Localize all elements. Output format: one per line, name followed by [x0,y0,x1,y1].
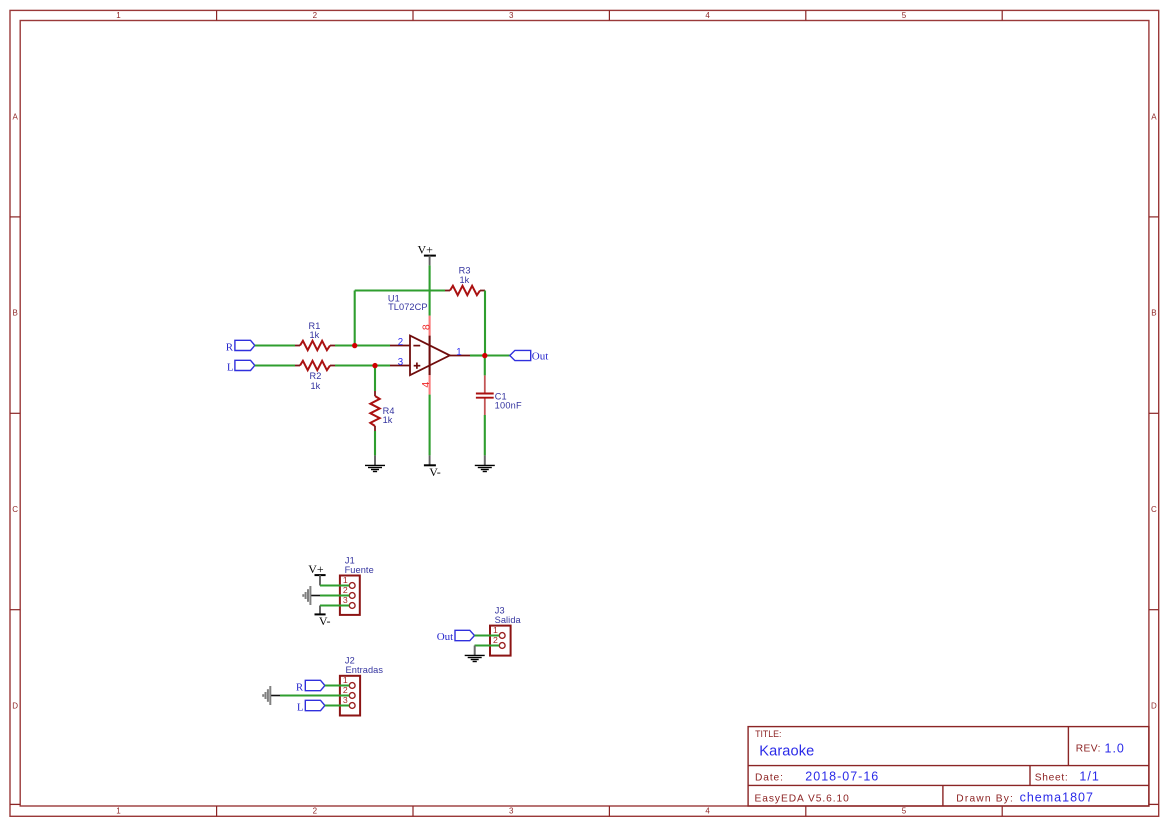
frame bottom margin ticks [10,803,20,805]
frame row ticks left [10,217,20,610]
wire L to R2 [255,364,295,366]
svg-text:1: 1 [116,11,121,20]
wire pin1 to node [470,354,485,356]
svg-text:3: 3 [509,807,514,816]
svg-text:Entradas: Entradas [346,665,384,675]
ground below C1 [475,455,495,471]
svg-text:2018-07-16: 2018-07-16 [805,769,879,783]
svg-text:1: 1 [343,675,348,685]
port L [227,360,255,373]
wire junction down to R4 [374,366,376,392]
svg-text:Out: Out [532,351,549,363]
svg-text:L: L [297,701,304,713]
op-amp pin 1 output [450,355,470,357]
svg-text:TITLE:: TITLE: [755,729,781,739]
connector J3 [490,606,522,656]
resistor R1 [295,321,335,350]
frame column numbers top [116,11,907,20]
wire node down to C1 [484,356,486,376]
power V+ (main) [418,243,436,266]
resistor R3 [445,266,485,296]
wire R2 to pin3 [335,364,390,366]
connector J2 [340,656,383,716]
port L (J2) [297,700,325,713]
frame column ticks top [217,10,1003,20]
wire junction up [354,291,356,346]
wire R1 to pin2 [335,344,390,346]
svg-text:100nF: 100nF [495,400,522,410]
op-amp U1 [388,293,450,375]
op-amp pin 2 [390,345,410,347]
ground below R4 [365,455,385,471]
wire V- to J1 pin3 [320,604,349,606]
svg-text:R: R [226,341,234,353]
svg-text:4: 4 [705,807,710,816]
wire GND stub to J1 pin2 [311,595,320,597]
svg-text:B: B [13,309,18,318]
wire R to R1 [255,344,295,346]
frame row letters left [12,112,18,710]
wire R3 down to output node [484,291,486,356]
svg-text:B: B [1151,309,1156,318]
svg-text:4: 4 [421,382,432,388]
svg-text:3: 3 [343,695,348,705]
svg-text:2: 2 [313,807,318,816]
frame row ticks right [1149,217,1159,610]
wire V+ to pin8 [429,265,431,315]
node junction R2/R4 [372,363,377,368]
svg-text:C: C [12,505,18,514]
svg-text:1: 1 [343,575,348,585]
resistor R4 [370,391,394,431]
ground GND (J1 pin2, rotated gray) [303,586,310,605]
wire feedback horizontal [355,289,445,291]
svg-text:TL072CP: TL072CP [388,302,428,312]
connector J1 [340,556,374,615]
svg-text:chema1807: chema1807 [1020,791,1094,805]
op-amp U1 pin 4 [429,375,431,394]
wire GND stub to J2 pin2 [271,695,280,697]
svg-text:L: L [227,361,234,373]
svg-text:A: A [1151,112,1157,121]
frame row letters right [1151,112,1157,710]
wire pin4 to V- [429,395,431,456]
svg-text:C: C [1151,505,1157,514]
frame column numbers bottom [116,807,907,816]
svg-text:3: 3 [343,595,348,605]
power V- (J1) [315,606,331,629]
svg-text:Drawn By:: Drawn By: [956,793,1014,804]
port R (J2) [296,680,325,693]
svg-text:D: D [12,701,18,710]
svg-text:5: 5 [902,11,907,20]
port Out (J3) [437,630,475,643]
wire node to Out port [485,354,510,356]
svg-text:3: 3 [509,11,514,20]
op-amp U1 pin 8 [429,316,431,336]
svg-text:2: 2 [493,635,498,645]
wire V+ to J1 pin1 [320,584,349,586]
svg-text:2: 2 [343,685,348,695]
power V+ (J1) [308,562,325,586]
svg-text:V+: V+ [308,562,324,576]
frame column ticks bottom [217,806,1003,816]
svg-text:1k: 1k [383,415,393,425]
port R [226,340,255,353]
svg-text:Out: Out [437,631,454,643]
svg-text:REV:: REV: [1076,744,1101,755]
svg-text:1k: 1k [310,381,320,391]
op-amp U1 pin8/pin4 inner stubs [429,336,431,376]
node junction output [482,353,487,358]
svg-text:1.0: 1.0 [1105,742,1125,756]
svg-text:R: R [296,681,304,693]
svg-text:V+: V+ [418,243,434,257]
svg-text:Fuente: Fuente [345,565,374,575]
svg-text:Karaoke: Karaoke [759,744,814,760]
svg-text:8: 8 [422,324,433,330]
svg-text:Salida: Salida [495,615,522,625]
wire Out to J3 pin1 [475,634,500,636]
svg-text:Date:: Date: [755,773,784,784]
port Out (main) [510,350,548,362]
wire C1 to ground [484,415,486,455]
power V- (main) [424,455,441,478]
ground (J3) [465,646,485,662]
svg-text:1/1: 1/1 [1079,769,1099,783]
wire L to J2 pin3 [325,704,350,706]
svg-text:1: 1 [456,347,461,358]
svg-text:EasyEDA V5.6.10: EasyEDA V5.6.10 [755,793,850,804]
svg-text:1: 1 [116,807,121,816]
wire R4 to ground [374,431,376,455]
svg-text:2: 2 [313,11,318,20]
op-amp pin 3 [390,365,410,367]
svg-text:V-: V- [429,465,441,479]
svg-text:R2: R2 [310,371,322,381]
svg-text:5: 5 [902,807,907,816]
node junction R1/feedback [352,343,357,348]
svg-text:1: 1 [493,625,498,635]
svg-text:J3: J3 [495,606,505,616]
capacitor C1 [476,375,522,415]
ground GND (J2 pin2, rotated gray) [263,686,270,705]
svg-text:Sheet:: Sheet: [1035,773,1069,784]
svg-text:2: 2 [398,337,403,348]
svg-text:4: 4 [705,11,710,20]
svg-text:3: 3 [398,357,403,368]
wire R to J2 pin1 [325,684,350,686]
resistor R2 [295,361,335,391]
wire ground to J3 pin2 [475,644,500,646]
svg-text:1k: 1k [459,275,469,285]
svg-text:R3: R3 [459,266,471,276]
svg-text:V-: V- [319,614,331,628]
svg-text:1k: 1k [309,330,319,340]
svg-text:D: D [1151,701,1157,710]
svg-text:2: 2 [343,585,348,595]
svg-text:A: A [13,112,19,121]
